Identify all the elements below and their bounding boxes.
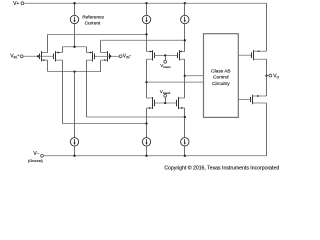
svg-text:Current: Current: [85, 20, 101, 25]
svg-text:bias2: bias2: [163, 91, 171, 95]
svg-text:Class AB: Class AB: [211, 68, 230, 74]
svg-text:V−: V−: [33, 151, 39, 157]
svg-text:bias1: bias1: [163, 65, 171, 69]
svg-text:Copyright © 2016, Texas Instru: Copyright © 2016, Texas Instruments Inco…: [164, 165, 279, 172]
svg-text:Circuitry: Circuitry: [212, 81, 230, 87]
svg-text:Control: Control: [213, 75, 228, 81]
svg-text:V+: V+: [13, 1, 19, 7]
svg-text:(Ground): (Ground): [28, 159, 43, 163]
svg-text:Reference: Reference: [82, 15, 104, 20]
